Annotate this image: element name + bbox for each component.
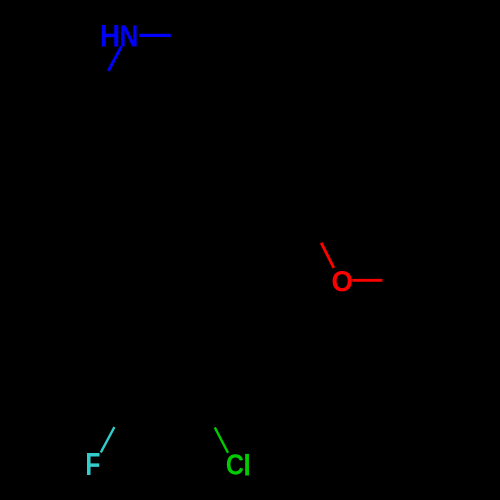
atom F1 label F [87,453,100,475]
atom N1 label HN, letter H [102,25,119,47]
bond F1-aryl carbon, F half (cyan) [101,427,115,452]
bond Cl1-aryl carbon, Cl half (green) [215,427,228,452]
bond N1-ring carbon, N half (blue) [108,46,121,71]
atom Cl1 label Cl, letter C [227,454,243,474]
atom N1 label HN, letter N [121,25,136,46]
bond N1-CH3, N half (blue) [139,34,170,37]
atom O1 label O [333,271,352,291]
atom Cl1 label Cl, letter l [245,454,249,476]
bond O1-aryl carbon, O half (red) [321,243,334,268]
bond O1-CH3, O half (red) [352,279,382,282]
